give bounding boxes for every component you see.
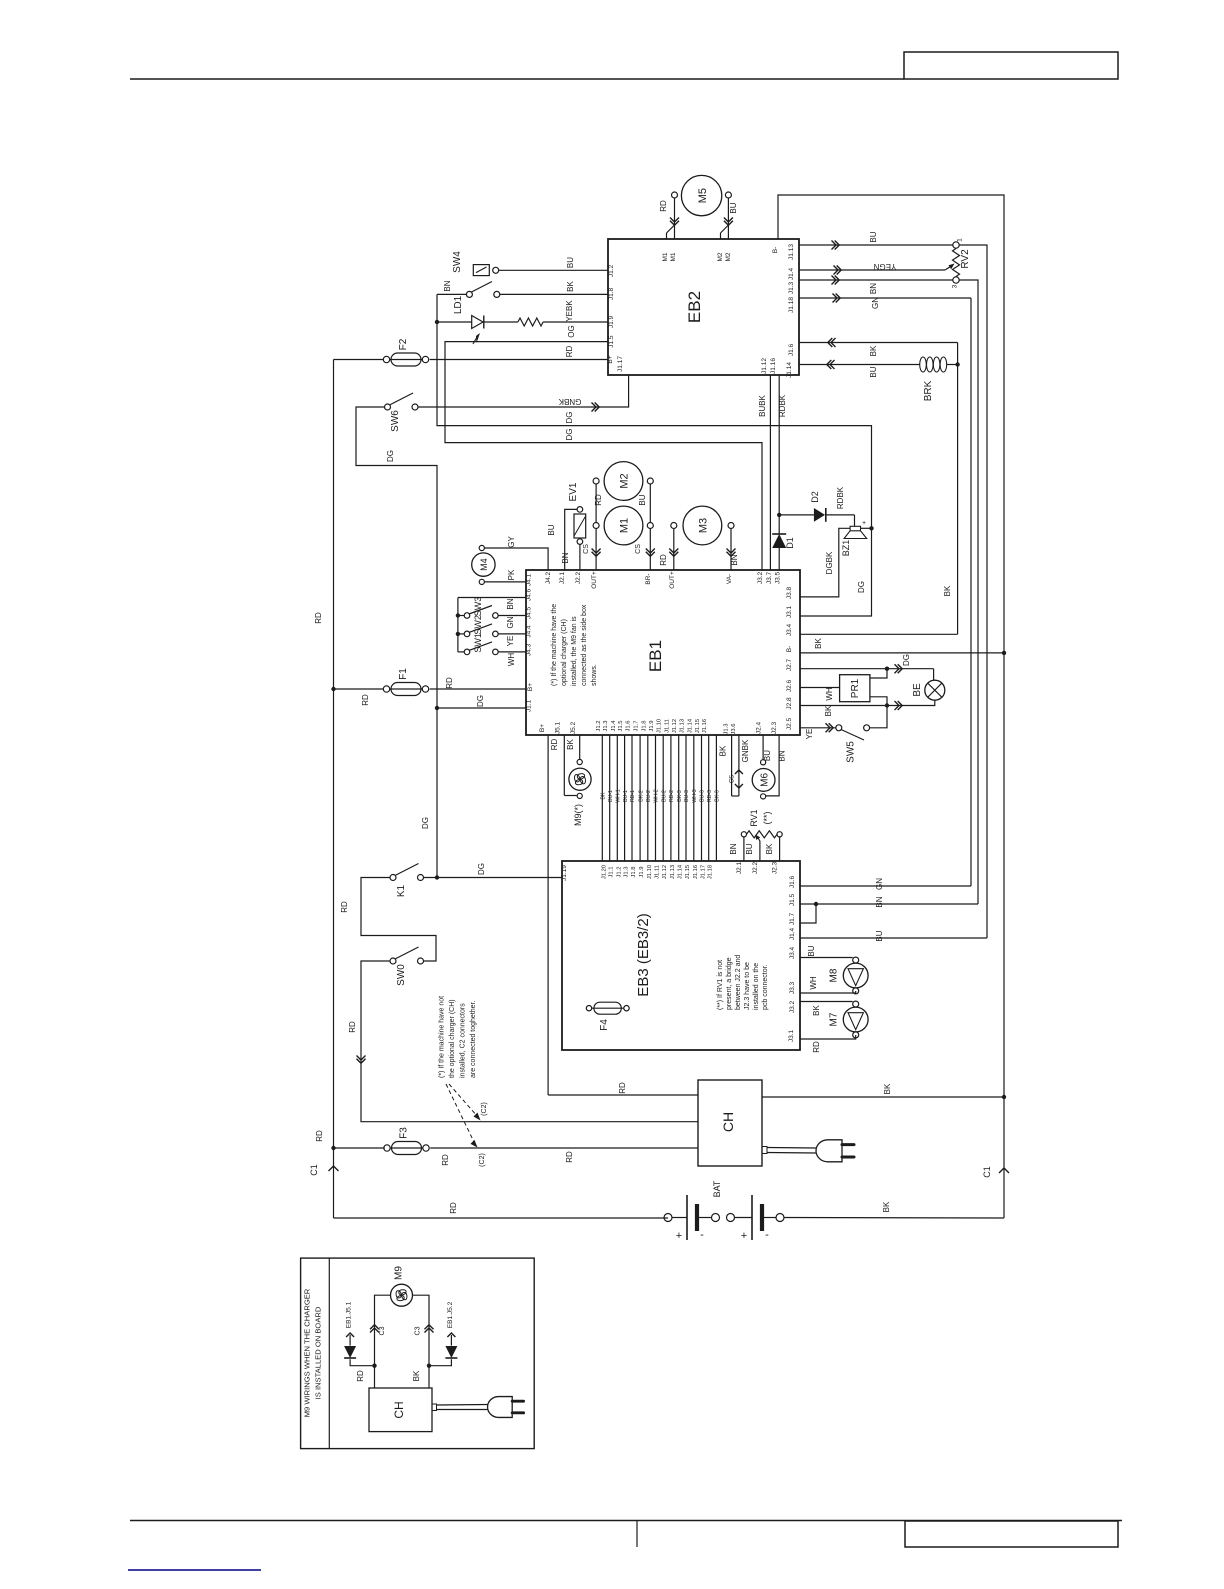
svg-text:J1.3: J1.3 (724, 724, 730, 735)
wire SW4 BK to EB2 J1.8 (500, 293, 608, 295)
solenoid valve EV1 (574, 514, 586, 538)
wire GN SW2 to EB1 (498, 633, 526, 635)
svg-text:BU-3: BU-3 (700, 790, 706, 802)
svg-text:J1.11: J1.11 (664, 719, 670, 733)
svg-text:CH: CH (720, 1112, 736, 1132)
wire RDBK EB2 J1.16 upper (778, 375, 780, 515)
wire SW4 BU to EB2 J1.2 (499, 269, 608, 271)
svg-text:C3: C3 (415, 1326, 422, 1335)
svg-text:J1.14: J1.14 (687, 718, 693, 733)
wire RD SW0 to CH (361, 961, 698, 1122)
wire BN RV1 to EB3 J2.1 (743, 837, 745, 861)
svg-text:J1.9: J1.9 (608, 315, 615, 328)
svg-text:GNBK: GNBK (558, 397, 581, 406)
svg-text:J3.2: J3.2 (789, 1000, 796, 1013)
svg-text:BK: BK (812, 1005, 821, 1016)
svg-text:J1.8: J1.8 (631, 867, 637, 878)
wire WH M8 to EB3 J3.3 (800, 991, 856, 993)
svg-text:installed on the: installed on the (753, 963, 760, 1010)
wire left bus to EB1 OUT+ (595, 529, 597, 571)
svg-text:CS: CS (730, 775, 736, 783)
svg-text:the optional charger (CH): the optional charger (CH) (449, 999, 456, 1078)
svg-text:M9 WIRINGS WHEN THE CHARGER: M9 WIRINGS WHEN THE CHARGER (303, 1288, 312, 1417)
leader dashed to C2 (446, 1084, 475, 1144)
svg-text:M1: M1 (619, 518, 631, 533)
svg-text:J1.3: J1.3 (624, 867, 630, 878)
svg-text:GN: GN (875, 878, 884, 890)
svg-text:optional charger (CH): optional charger (CH) (561, 619, 568, 686)
svg-text:J1.6: J1.6 (789, 875, 796, 888)
BAT cell2 + plate (751, 1195, 753, 1240)
svg-text:EB1.J5.1: EB1.J5.1 (346, 1301, 353, 1328)
svg-text:SW1: SW1 (473, 633, 483, 653)
svg-text:SW4: SW4 (452, 251, 463, 273)
svg-text:J1.12: J1.12 (662, 865, 668, 879)
inset wire diode to junction (429, 1359, 451, 1365)
wire EB2 J1.18 GN right (799, 297, 971, 299)
svg-text:J1.18: J1.18 (788, 297, 795, 313)
svg-text:1: 1 (957, 238, 964, 242)
svg-text:M4: M4 (479, 558, 489, 571)
svg-text:GY: GY (507, 536, 516, 548)
svg-text:BK: BK (566, 281, 575, 292)
svg-text:IS INSTALLED ON BOARD: IS INSTALLED ON BOARD (314, 1306, 323, 1399)
LED LD1 (472, 316, 483, 329)
svg-text:DG: DG (565, 429, 574, 441)
svg-text:RD: RD (618, 1082, 627, 1094)
junction RD/F1 (331, 687, 335, 691)
svg-text:RV2: RV2 (960, 249, 971, 269)
svg-text:J2.2: J2.2 (575, 571, 582, 584)
svg-text:+: + (676, 1230, 682, 1242)
wire DG SW4 to EB1 J3.1 (437, 294, 872, 616)
wire M5 BU to EB2 M2 (727, 198, 729, 239)
switch SW4 (473, 265, 489, 276)
wire to BE top (933, 669, 935, 681)
svg-text:RD: RD (356, 1370, 365, 1382)
svg-text:BK: BK (869, 345, 878, 356)
svg-text:B+: B+ (539, 724, 546, 732)
svg-text:RD: RD (812, 1041, 821, 1053)
svg-text:J3.1: J3.1 (786, 605, 793, 618)
svg-text:J1.16: J1.16 (702, 719, 708, 733)
svg-text:DG: DG (902, 654, 911, 666)
wire EB2 J1.14 BU to BRK (799, 364, 920, 366)
svg-text:J1.13: J1.13 (680, 719, 686, 733)
svg-text:J1.4: J1.4 (788, 267, 795, 280)
wire BK battery - to bus (784, 1217, 1004, 1220)
svg-text:J1.15: J1.15 (685, 865, 691, 879)
wire RD K1 to SW0 (361, 878, 436, 962)
svg-text:J1.13: J1.13 (670, 865, 676, 879)
svg-text:J1.10: J1.10 (647, 865, 653, 879)
controller EB2 (608, 239, 799, 375)
svg-text:RD: RD (565, 346, 574, 358)
svg-text:RD: RD (659, 554, 668, 566)
svg-text:J1.9: J1.9 (639, 867, 645, 878)
svg-text:J1.16: J1.16 (693, 865, 699, 879)
switch SW0 (390, 958, 396, 964)
svg-text:RD: RD (340, 901, 349, 913)
fuse F4 (586, 1006, 591, 1011)
svg-text:BU-2: BU-2 (661, 790, 667, 802)
wire BK down to EB1 J3.4 (957, 365, 959, 635)
connector CS stub (731, 735, 733, 796)
svg-text:installed, C2 connectors: installed, C2 connectors (460, 1003, 467, 1078)
svg-text:BK: BK (566, 739, 575, 750)
wire BE return (887, 700, 935, 705)
motor M2 (604, 462, 643, 501)
svg-text:J3.5: J3.5 (775, 571, 782, 584)
svg-text:BZ1: BZ1 (841, 540, 851, 557)
svg-text:WH-2: WH-2 (654, 789, 660, 802)
wire RD to CH (548, 1094, 698, 1096)
svg-text:J2.6: J2.6 (786, 679, 793, 692)
svg-text:connected as the side box: connected as the side box (581, 604, 588, 686)
wire LD1 to resistor (484, 321, 518, 323)
svg-text:J1.4: J1.4 (611, 720, 617, 732)
svg-text:J1.15: J1.15 (695, 719, 701, 733)
svg-text:J1.16: J1.16 (770, 358, 777, 374)
svg-text:(**): (**) (762, 811, 772, 824)
svg-text:RD: RD (594, 494, 603, 506)
motor M3 (683, 506, 722, 545)
bottom-right box (905, 1521, 1118, 1547)
svg-text:K1: K1 (396, 884, 407, 897)
svg-text:RD: RD (565, 1151, 574, 1163)
svg-text:BK-3: BK-3 (715, 790, 721, 802)
inset box: M9 wirings when charger installed (301, 1258, 535, 1449)
svg-text:RDBK: RDBK (836, 486, 845, 509)
svg-text:J4.5: J4.5 (526, 606, 533, 619)
svg-text:J2.1: J2.1 (736, 861, 743, 874)
svg-text:J1.11: J1.11 (655, 865, 661, 879)
svg-text:RDBK: RDBK (778, 394, 787, 417)
svg-text:BU-1: BU-1 (623, 790, 629, 802)
svg-text:J1.17: J1.17 (701, 865, 707, 879)
wire EB2 J1.6 BK right (799, 342, 958, 344)
wire to LD1 anode (437, 321, 472, 323)
svg-text:DG: DG (386, 450, 395, 462)
wire EB2 J1.4 YEGN to RV2 wiper (799, 269, 945, 271)
wire to D2 (779, 514, 814, 516)
svg-text:WH: WH (825, 687, 834, 701)
svg-text:DGBK: DGBK (825, 551, 834, 574)
svg-text:RD: RD (659, 200, 668, 212)
svg-text:F2: F2 (398, 338, 409, 350)
resistor in series with LD1 (518, 318, 543, 326)
svg-text:RD: RD (315, 1130, 324, 1142)
svg-text:M9: M9 (394, 1266, 405, 1280)
wire BU EB3 J3.4 to M8 (800, 957, 853, 959)
svg-text:BU: BU (638, 494, 647, 505)
svg-text:J2.3 have to be: J2.3 have to be (744, 962, 751, 1010)
svg-text:J3.8: J3.8 (786, 586, 793, 599)
potentiometer RV2 (953, 242, 959, 248)
junction BRK/BK (955, 362, 959, 366)
svg-text:J4.1: J4.1 (526, 573, 533, 586)
svg-text:M9(*): M9(*) (573, 804, 583, 826)
wire YE EB1 J2.5 to SW5 (800, 727, 836, 729)
svg-text:J1.10: J1.10 (657, 719, 663, 733)
pump M8 (843, 963, 868, 988)
svg-text:(**) If RV1 is not: (**) If RV1 is not (717, 960, 724, 1010)
inset charger CH (369, 1388, 432, 1432)
svg-text:RD: RD (348, 1021, 357, 1033)
svg-text:J1.18: J1.18 (708, 865, 714, 879)
svg-text:J1.2: J1.2 (616, 867, 622, 878)
svg-text:BU: BU (875, 930, 884, 941)
wire GNBK EB2 J1.17 to SW6 (418, 375, 629, 407)
svg-text:J5.1: J5.1 (555, 721, 562, 734)
svg-text:BK: BK (824, 705, 833, 716)
svg-text:F1: F1 (398, 668, 409, 680)
wire SW4 BN to DG riser (437, 293, 466, 295)
wire M1/M2 right bus (649, 484, 651, 523)
junction PR1 bottom (885, 703, 889, 707)
wire BK bus mid (1003, 647, 1005, 1097)
svg-text:GNBK: GNBK (741, 739, 750, 762)
wire right bus to EB1 BR- (649, 529, 651, 571)
svg-text:SW6: SW6 (390, 410, 401, 432)
wire M5 RD to EB2 M1 (674, 198, 676, 239)
switch SW2 (458, 633, 464, 635)
svg-text:SW2: SW2 (473, 615, 483, 635)
svg-text:J1.1: J1.1 (609, 867, 615, 878)
wire RD EB1 J5.1 down (563, 735, 565, 796)
svg-text:BU-2: BU-2 (646, 790, 652, 802)
svg-text:J1.12: J1.12 (761, 358, 768, 374)
svg-text:RD-1: RD-1 (630, 790, 636, 802)
wire F2 to RD rail (334, 359, 384, 361)
wire EB2 J1.3 BN to RV2 pin3 (799, 279, 953, 281)
BAT cell2 - plate (760, 1204, 764, 1231)
inset mains plug (432, 1404, 437, 1411)
svg-text:BU-1: BU-1 (608, 790, 614, 802)
inset wire diode to junction (350, 1359, 374, 1365)
wire D1 to EB1 J3.5 (778, 548, 780, 570)
svg-text:J1.6: J1.6 (626, 721, 632, 732)
svg-text:BK: BK (943, 585, 952, 596)
wire BN bus down to EB3 J1.5 (959, 280, 978, 904)
svg-text:J3.3: J3.3 (789, 981, 796, 994)
svg-text:BK: BK (412, 1370, 421, 1381)
svg-text:J2.1: J2.1 (559, 571, 566, 584)
svg-text:B-: B- (786, 646, 793, 653)
wire bundle EB1 J1.x to EB3 J1.x (601, 735, 603, 861)
svg-text:M6: M6 (760, 773, 771, 787)
wire BN EB3 J1.5 to bus (800, 903, 978, 905)
svg-text:J2.3: J2.3 (772, 861, 779, 874)
wire GN EB3 J1.6 to bus (800, 885, 971, 887)
wire DGBK BZ1 to EB1 J3.8 (800, 528, 850, 597)
svg-text:DG: DG (476, 695, 485, 707)
svg-text:B+: B+ (607, 355, 614, 363)
svg-text:DG: DG (421, 817, 430, 829)
svg-text:(C2): (C2) (481, 1102, 488, 1116)
svg-text:EB1.J5.2: EB1.J5.2 (447, 1301, 454, 1328)
svg-text:J1.13: J1.13 (788, 244, 795, 260)
svg-text:M2: M2 (725, 252, 732, 261)
wire RD to battery + (334, 1217, 669, 1219)
svg-text:D1: D1 (785, 537, 795, 549)
svg-text:BU: BU (807, 945, 816, 956)
svg-text:GN: GN (506, 616, 515, 628)
svg-text:J1.2: J1.2 (608, 264, 615, 277)
svg-text:J3.6: J3.6 (731, 724, 737, 735)
svg-text:BN: BN (561, 552, 570, 563)
svg-text:RD: RD (314, 612, 323, 624)
svg-text:J1.19: J1.19 (561, 865, 568, 881)
svg-text:(*) If the machine have the: (*) If the machine have the (551, 604, 558, 686)
svg-text:J3.4: J3.4 (786, 623, 793, 636)
wire SW common to EB1 J4.6 (458, 597, 526, 599)
pressure switch PR1 (840, 675, 870, 702)
junction LD1 tap (435, 320, 439, 324)
svg-text:M3: M3 (697, 518, 709, 533)
BAT cell1 - plate (695, 1204, 699, 1231)
controller EB3 (562, 861, 800, 1050)
svg-text:YE: YE (506, 636, 515, 647)
svg-text:J4.2: J4.2 (545, 571, 552, 584)
svg-text:BK: BK (601, 792, 607, 799)
svg-text:J2.4: J2.4 (756, 721, 763, 734)
svg-text:-: - (700, 1229, 704, 1241)
svg-text:BU: BU (869, 231, 878, 242)
svg-text:are connected toghether.: are connected toghether. (470, 1000, 477, 1078)
wire SW common bus (457, 598, 459, 652)
junction J1.7/J1.5 (814, 902, 818, 906)
motor M1 (604, 506, 643, 545)
wire to D1 (778, 515, 780, 534)
fuse F2 (383, 356, 389, 362)
svg-text:EB2: EB2 (685, 291, 704, 323)
motor M6 (752, 769, 775, 792)
svg-text:PK: PK (507, 569, 516, 580)
svg-text:BU: BU (745, 843, 754, 854)
svg-text:OUT+: OUT+ (669, 571, 676, 589)
svg-text:BN: BN (730, 554, 739, 565)
svg-text:DG: DG (565, 412, 574, 424)
wire BU EB3 J1.4 to bus (800, 937, 987, 939)
diode D1 (772, 534, 786, 548)
svg-text:J1.1: J1.1 (526, 699, 533, 712)
battery charger CH (698, 1080, 762, 1166)
svg-text:J4.6: J4.6 (526, 588, 533, 601)
wire BN SW3 to EB1 (498, 615, 526, 617)
svg-text:J1.20: J1.20 (601, 865, 607, 879)
svg-text:F3: F3 (399, 1127, 410, 1139)
svg-text:J1.6: J1.6 (788, 343, 795, 356)
leader dashed to C2 (449, 1084, 478, 1117)
svg-text:J1.7: J1.7 (789, 912, 796, 925)
wire B- to BK bus (800, 652, 1004, 654)
svg-text:J1.5: J1.5 (618, 721, 624, 732)
wire BK EB3 J3.2 to M7 (800, 1001, 853, 1003)
svg-text:PR1: PR1 (850, 678, 861, 698)
fuse F1 (383, 686, 389, 692)
wire RD F3 to CH (430, 1147, 698, 1149)
svg-text:J1.2: J1.2 (596, 721, 602, 732)
wire YE SW1 to EB1 (498, 651, 526, 653)
connector C3 arrow (370, 1328, 379, 1333)
inset wire M9 right to CH (413, 1295, 430, 1388)
connector C1 arrow (999, 1168, 1009, 1173)
svg-text:J1.14: J1.14 (786, 362, 793, 378)
svg-text:EV1: EV1 (568, 482, 579, 501)
inset diode to EB1.J5.2 (447, 1333, 455, 1337)
svg-text:BU: BU (566, 257, 575, 268)
svg-text:-: - (765, 1229, 769, 1241)
svg-text:BK-2: BK-2 (638, 790, 644, 802)
svg-text:WH-3: WH-3 (692, 789, 698, 802)
svg-text:YEGN: YEGN (873, 262, 896, 271)
svg-text:J2.2: J2.2 (752, 861, 759, 874)
svg-text:BN: BN (778, 750, 787, 761)
svg-text:OG: OG (567, 325, 576, 337)
svg-text:WH-1: WH-1 (616, 789, 622, 802)
svg-text:BK: BK (765, 843, 774, 854)
svg-text:CS: CS (635, 544, 642, 554)
inset fan M9 (391, 1284, 413, 1306)
svg-text:BU: BU (547, 524, 556, 535)
svg-text:OUT+: OUT+ (591, 571, 598, 589)
wire YEBK to EB2 J1.9 (543, 321, 608, 323)
connector C3 arrow (425, 1328, 434, 1333)
svg-text:J1.3: J1.3 (603, 721, 609, 732)
svg-text:RD: RD (550, 739, 559, 751)
svg-text:J1.8: J1.8 (608, 287, 615, 300)
wire RD M7 to EB3 J3.1 (800, 1035, 856, 1039)
svg-text:M7: M7 (828, 1012, 839, 1026)
svg-text:RD: RD (449, 1202, 458, 1214)
inset wire M9 left to CH (375, 1295, 391, 1388)
svg-text:RD: RD (441, 1154, 450, 1166)
svg-text:BN: BN (869, 283, 878, 294)
svg-text:RD: RD (361, 694, 370, 706)
wire GN bus down to EB3 J1.6 (970, 298, 972, 886)
BAT cell1 + plate (686, 1195, 688, 1240)
connector C1 arrow (329, 1166, 339, 1171)
svg-text:J3.1: J3.1 (788, 1029, 795, 1042)
svg-text:BN: BN (729, 843, 738, 854)
svg-text:3: 3 (952, 284, 959, 288)
svg-text:BE: BE (912, 683, 923, 697)
svg-text:J1.3: J1.3 (788, 281, 795, 294)
svg-text:RV1: RV1 (749, 809, 759, 826)
wire EB2 J1.13 BU to RV2 pin1 (799, 244, 953, 246)
wire BU bus down to EB3 J1.4 (959, 245, 987, 938)
wire PR1 bottom stub (870, 697, 887, 706)
wire BU EV1 to EB1 J2.1 (565, 509, 577, 570)
svg-text:BR-: BR- (645, 573, 652, 584)
svg-text:present, a bridge: present, a bridge (726, 957, 733, 1010)
bottom tick (636, 1521, 638, 1548)
wire BZ1+ to DG line (861, 527, 872, 529)
svg-text:LD1: LD1 (453, 295, 464, 314)
wire DG EB1 J2.7 (800, 668, 934, 670)
svg-text:J1.8: J1.8 (641, 721, 647, 732)
wire BK EB1 J5.2 down (579, 735, 581, 759)
svg-text:J4.3: J4.3 (526, 643, 533, 656)
svg-text:M1: M1 (670, 252, 677, 261)
svg-text:EB3 (EB3/2): EB3 (EB3/2) (635, 913, 652, 996)
wire BK EB1 J2.8 (800, 705, 887, 707)
svg-text:J1.14: J1.14 (678, 864, 684, 879)
motor M5 (681, 175, 721, 215)
switch SW5 (836, 725, 842, 731)
bottom rule (130, 1520, 1122, 1522)
